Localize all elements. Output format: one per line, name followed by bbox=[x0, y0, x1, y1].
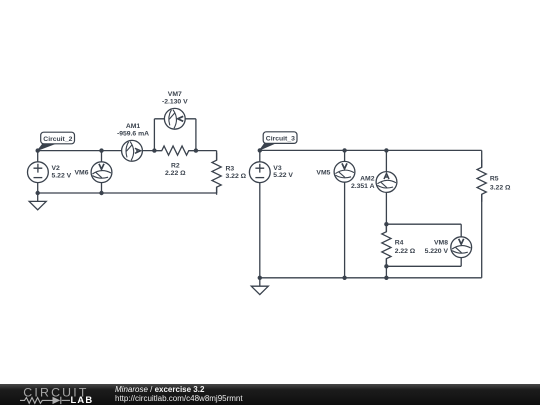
svg-text:VM6: VM6 bbox=[75, 170, 89, 177]
wire: left circuit bottom rail bbox=[38, 192, 217, 194]
voltage source V3 bbox=[249, 162, 270, 183]
voltmeter VM8 bbox=[451, 237, 472, 258]
wire: VM7 loop bbox=[154, 119, 196, 151]
ammeter AM1 bbox=[122, 140, 143, 161]
svg-text:3.22 Ω: 3.22 Ω bbox=[490, 184, 511, 191]
svg-text:Circuit_3: Circuit_3 bbox=[266, 136, 295, 143]
ground (right) bbox=[251, 278, 268, 295]
footer bar bbox=[0, 384, 540, 405]
label AM2 value bbox=[351, 176, 375, 190]
svg-text:R3: R3 bbox=[226, 166, 235, 173]
svg-text:2.22 Ω: 2.22 Ω bbox=[395, 248, 416, 255]
svg-text:V2: V2 bbox=[52, 165, 61, 172]
label VM8 value bbox=[425, 240, 449, 256]
label V3 value bbox=[273, 165, 293, 179]
svg-text:VM7: VM7 bbox=[168, 91, 182, 98]
svg-text:R2: R2 bbox=[171, 163, 180, 170]
node dots right circuit bbox=[258, 148, 389, 280]
ammeter AM2 bbox=[376, 172, 397, 193]
svg-text:R5: R5 bbox=[490, 176, 499, 183]
ground (left) bbox=[29, 193, 46, 210]
label R4 value bbox=[395, 240, 416, 256]
svg-text:Circuit_2: Circuit_2 bbox=[43, 136, 72, 143]
svg-text:-959.6 mA: -959.6 mA bbox=[117, 131, 149, 138]
svg-text:V3: V3 bbox=[273, 165, 282, 172]
flag label Circuit_3 bbox=[260, 132, 297, 150]
svg-text:LAB: LAB bbox=[71, 394, 94, 405]
svg-text:5.220 V: 5.220 V bbox=[425, 248, 449, 255]
footer meta line 1 bbox=[115, 385, 204, 394]
resistor R4 bbox=[382, 224, 391, 266]
voltmeter VM7 bbox=[164, 108, 185, 129]
wire: AM2 / R4 branch vertical bbox=[385, 150, 387, 277]
wire: R3 branch bbox=[216, 151, 218, 193]
label AM1 value bbox=[117, 123, 149, 137]
wire: left circuit top rail bbox=[38, 150, 217, 152]
svg-text:2.22 Ω: 2.22 Ω bbox=[165, 170, 186, 177]
label R5 value bbox=[490, 176, 511, 192]
node dots left circuit bbox=[36, 148, 199, 195]
flag label Circuit_2 bbox=[38, 132, 75, 150]
label V2 value bbox=[52, 165, 72, 179]
CircuitLab logo bbox=[0, 384, 110, 405]
voltmeter VM5 bbox=[334, 161, 355, 182]
wire: VM8 loop bbox=[386, 224, 461, 266]
svg-text:R4: R4 bbox=[395, 240, 404, 247]
label VM7 value bbox=[162, 91, 188, 105]
svg-text:2.351 A: 2.351 A bbox=[351, 183, 375, 190]
svg-text:VM5: VM5 bbox=[316, 170, 330, 177]
svg-text:VM8: VM8 bbox=[434, 240, 448, 247]
wire: R5 branch vertical bbox=[481, 150, 483, 277]
wire: V3 branch vertical bbox=[259, 150, 261, 277]
wire: V2 branch vertical bbox=[37, 151, 39, 193]
voltmeter VM6 bbox=[91, 162, 112, 183]
voltage source V2 bbox=[28, 162, 49, 183]
svg-text:-2.130 V: -2.130 V bbox=[162, 99, 188, 106]
label R2 value bbox=[165, 163, 186, 177]
resistor R3 bbox=[212, 153, 221, 195]
footer meta line 2 bbox=[115, 394, 243, 403]
wire: right circuit top rail bbox=[260, 149, 482, 151]
wire: VM6 branch vertical bbox=[101, 151, 103, 193]
svg-text:5.22 V: 5.22 V bbox=[52, 173, 72, 180]
svg-text:5.22 V: 5.22 V bbox=[273, 172, 293, 179]
resistor R5 bbox=[477, 160, 486, 202]
svg-text:AM2: AM2 bbox=[360, 176, 375, 183]
wire: VM5 branch vertical bbox=[344, 150, 346, 277]
label R3 value bbox=[226, 166, 247, 180]
wire: right circuit bottom rail bbox=[260, 277, 482, 279]
svg-text:3.22 Ω: 3.22 Ω bbox=[226, 173, 247, 180]
svg-text:AM1: AM1 bbox=[126, 123, 141, 130]
resistor R2 bbox=[154, 146, 196, 155]
